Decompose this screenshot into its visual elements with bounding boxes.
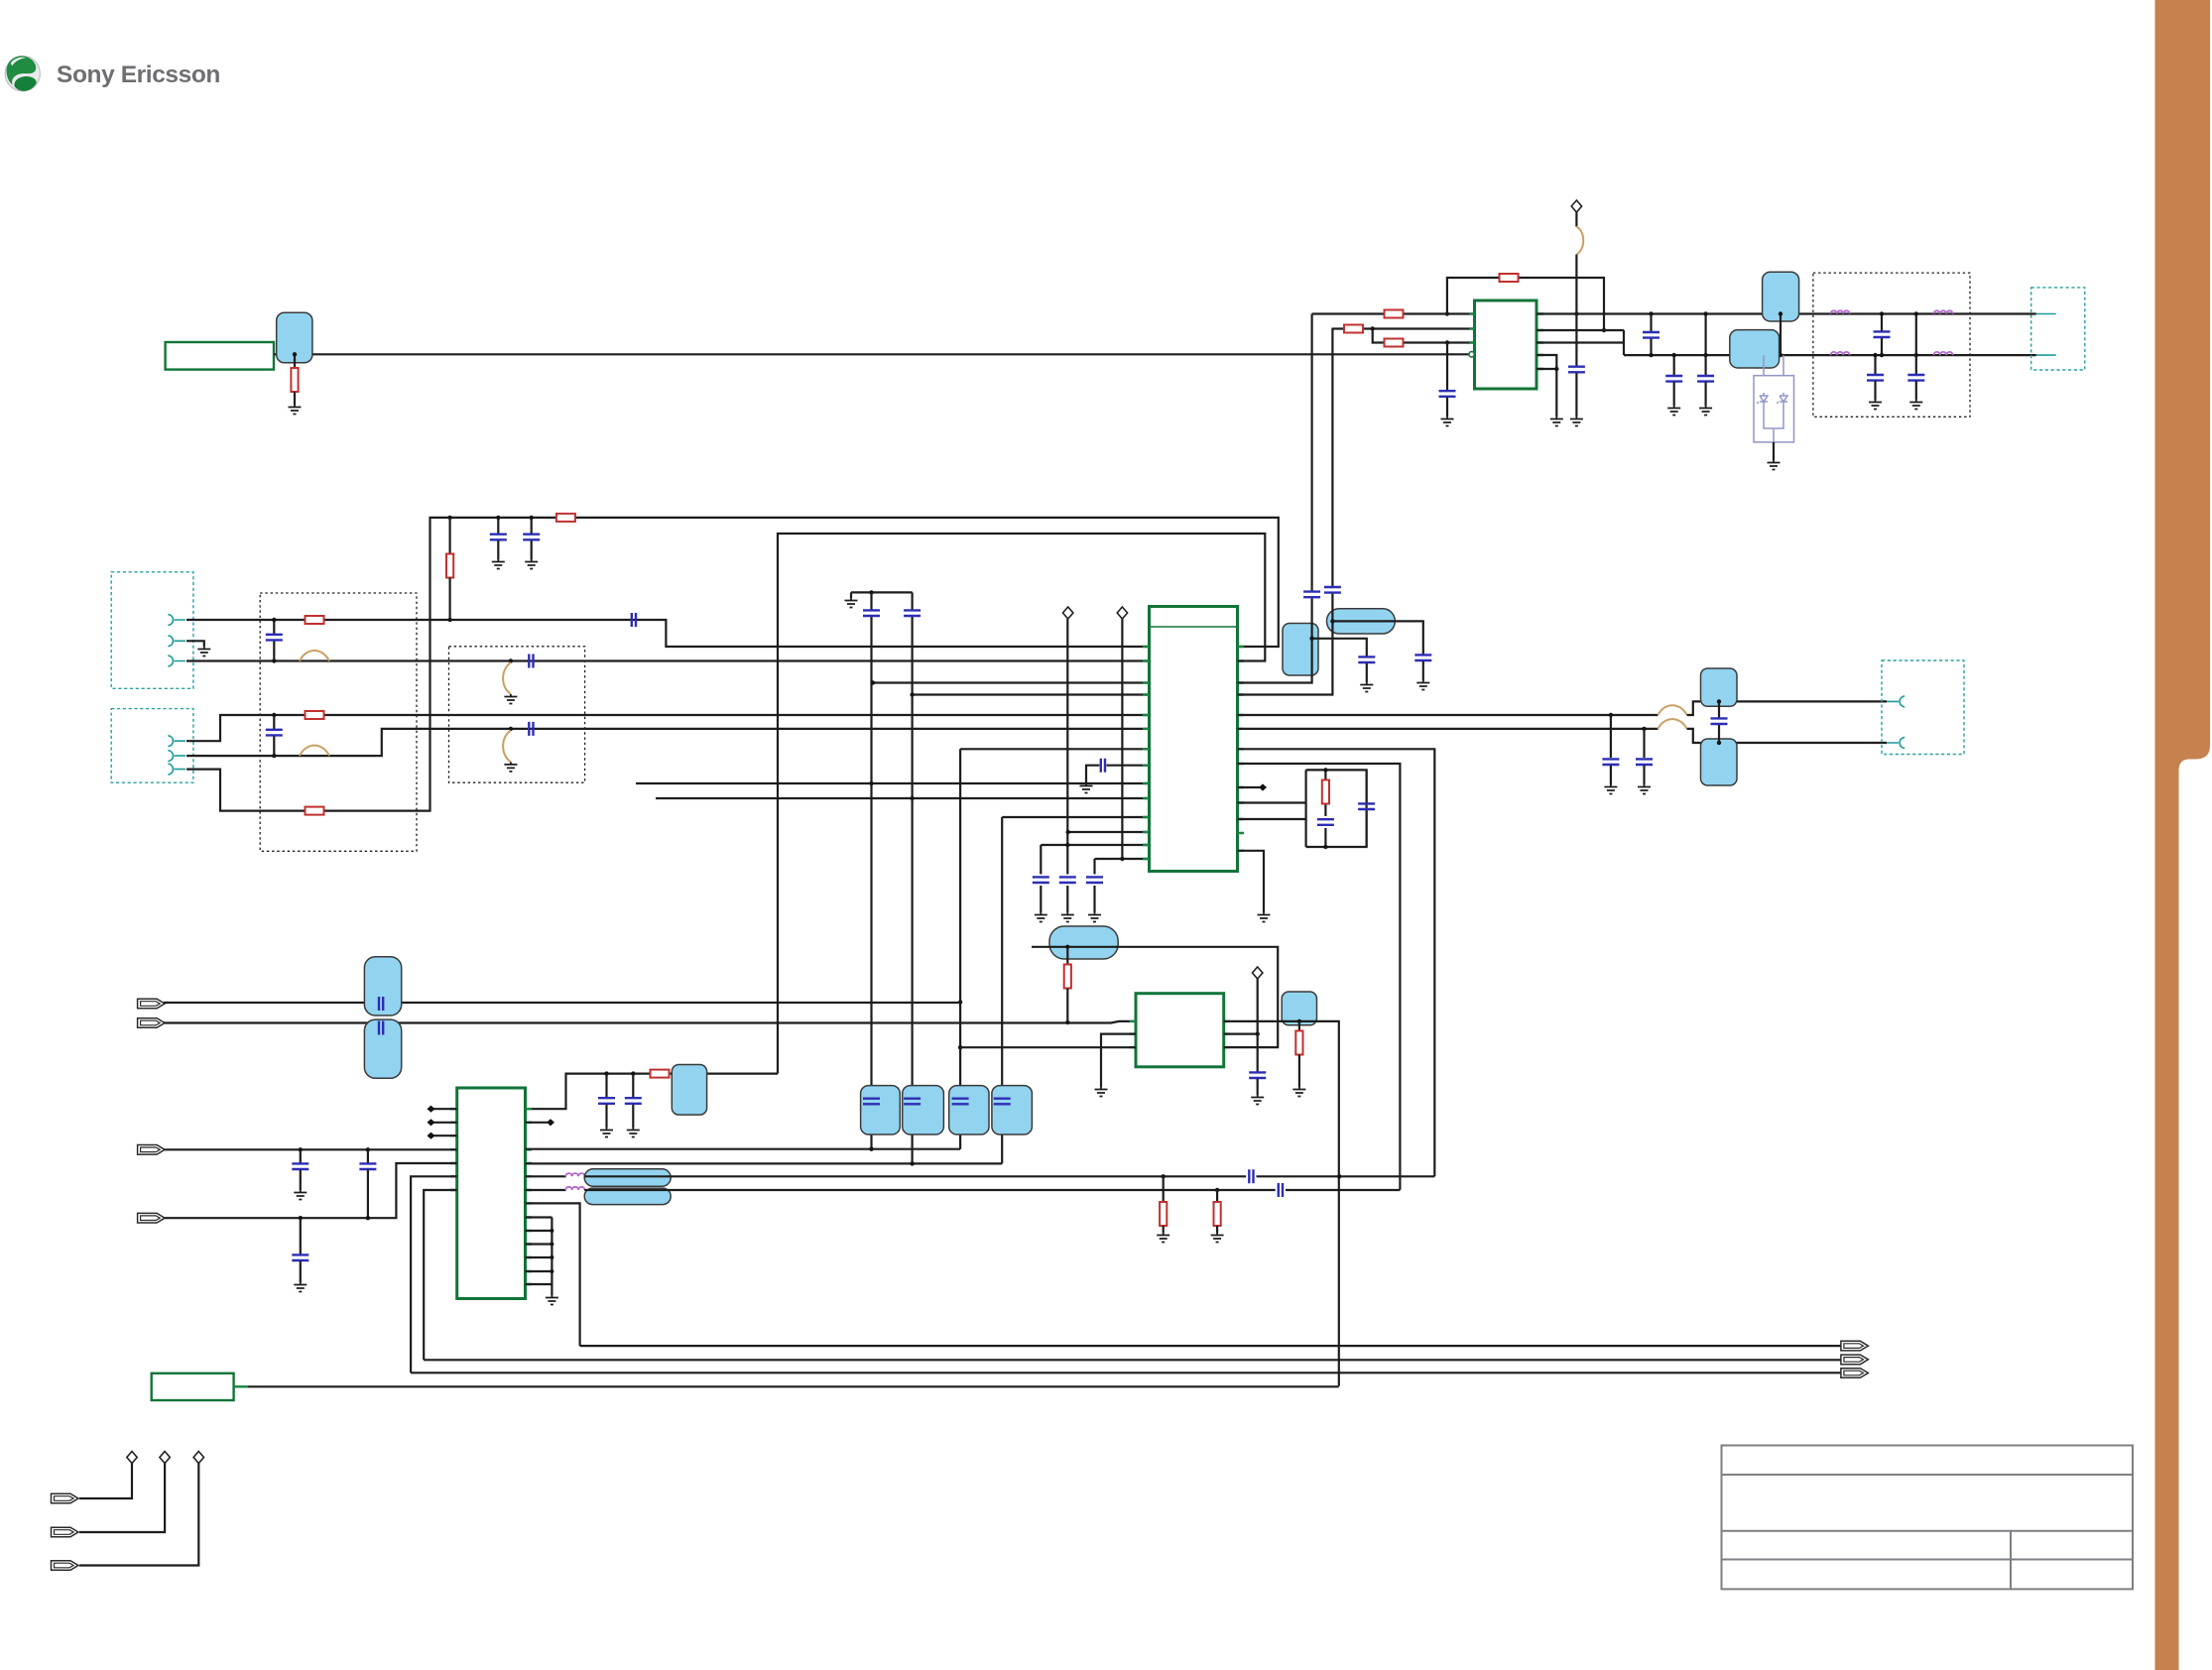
wire pin 794 stub — [1238, 786, 1261, 788]
pins 4/5 to ground — [1536, 355, 1556, 417]
J2 pin 2 — [168, 751, 185, 762]
branch to cap C7b — [1312, 639, 1367, 656]
terminator (black diamond) — [1259, 783, 1267, 790]
series cap C4a — [529, 655, 533, 668]
RF rail 2 — [1624, 354, 2036, 356]
J3 pin 1 — [1887, 696, 1905, 707]
wire pin 666 loopback — [778, 534, 1265, 1074]
node diamond N3 — [1253, 967, 1263, 979]
wire to R9 — [449, 518, 451, 557]
wire N4 — [79, 1464, 132, 1499]
block label box (green) — [166, 342, 274, 370]
pin stubs right U2 — [1536, 314, 1544, 370]
antenna pin 1 — [2036, 313, 2056, 315]
mic pill A (blue) — [364, 957, 401, 1015]
wire U5.R7 to bus1 — [526, 1203, 580, 1346]
U3 left pin stubs — [1143, 647, 1150, 859]
node VANT diamond — [1571, 200, 1581, 212]
cap C11 between lines — [1718, 701, 1720, 743]
RC loop frame — [1306, 770, 1367, 847]
input terminators (black diamonds) — [433, 1109, 457, 1135]
wire C4 to U5 — [165, 1163, 457, 1218]
wire U4.1R — [1224, 1021, 1339, 1386]
node diamond N6 — [193, 1452, 203, 1464]
U4 right pin stubs — [1224, 1021, 1230, 1047]
wire N1 down — [1066, 619, 1068, 875]
cap C2c to ground — [1915, 355, 1917, 374]
inverting pin bubble — [1469, 352, 1474, 357]
connector P5 pennant — [52, 1527, 79, 1537]
junction — [1371, 326, 1375, 330]
J2 pin 3 — [168, 764, 185, 775]
series cap C7a — [1303, 592, 1320, 598]
wire U5.L7 to bus2 — [424, 1190, 457, 1360]
wire U5 rail A — [526, 1148, 961, 1150]
title block table — [1722, 1446, 2134, 1590]
node diamond N1 — [1063, 607, 1073, 619]
ground — [289, 405, 302, 415]
cap C5a to ground — [497, 518, 499, 534]
wire step down — [1687, 729, 1887, 743]
antenna connector box (teal dashed) — [2031, 288, 2085, 370]
series cap C8a — [1324, 587, 1341, 593]
J2 pin 1 — [168, 736, 185, 747]
junction — [1445, 311, 1449, 315]
rail 1 wire — [186, 620, 1150, 647]
cap chain C16a — [1040, 845, 1042, 875]
tie vertical — [1704, 314, 1706, 356]
blue pad F — [672, 1065, 706, 1116]
wire R16 to C2 net — [1066, 989, 1068, 1023]
series cap C4c on rail1 — [632, 613, 636, 627]
EMI pad H (blue) — [1701, 739, 1738, 785]
U5 left pin stubs — [450, 1109, 457, 1190]
filter box 2 (dotted) — [449, 647, 585, 782]
wire to pin 755 — [960, 748, 1149, 750]
wire diamond down — [1575, 212, 1577, 227]
resistor R14 to ground — [1163, 1176, 1165, 1205]
inductor L4 — [1934, 352, 1953, 355]
resistor R4 — [1344, 325, 1363, 333]
wire rail 721 right — [1238, 714, 1659, 716]
wire pin 809 to RC loop — [1238, 801, 1306, 803]
wire J2.3 loop to top — [186, 518, 1279, 811]
wire to pin 839 — [1068, 831, 1150, 833]
mic pill B (blue) — [364, 1019, 401, 1078]
wire pin 755 down — [1238, 749, 1435, 1176]
ferrite arc (tan) — [1658, 705, 1686, 715]
bypass square 3 (blue) — [949, 1086, 989, 1134]
tie vertical at 1795 — [1780, 314, 1782, 356]
resistor R15 to ground — [1216, 1190, 1218, 1205]
resistor R7 — [306, 711, 324, 719]
ground — [1441, 417, 1454, 426]
cap C12 to ground — [1257, 1034, 1259, 1072]
connector P3 pennant — [1841, 1369, 1869, 1378]
junction — [1330, 619, 1334, 623]
wire rail 734 right — [1238, 728, 1659, 730]
mic pill C (blue) — [1049, 926, 1118, 959]
connector J1 box (teal dashed) — [111, 572, 193, 689]
resistor R13 — [651, 1070, 670, 1078]
cap C16b — [1059, 877, 1076, 883]
wire pin 857 to ground — [1238, 851, 1265, 912]
wire step up — [1687, 701, 1887, 715]
resistor R1 — [291, 368, 298, 392]
resistor R11 — [1322, 780, 1329, 804]
cap C13a — [605, 1074, 607, 1097]
cap C2a between rails — [1881, 314, 1883, 356]
resistor R3 — [1385, 310, 1404, 318]
wire to pin 688 — [873, 681, 1150, 683]
IC U5 body (green) — [457, 1088, 526, 1299]
RF rail 1 — [1536, 312, 2036, 314]
EMI pill 1 (blue) — [584, 1169, 671, 1186]
cap C10a to ground — [1610, 715, 1612, 758]
resistor R12 to ground — [1298, 1021, 1300, 1033]
orange side bar — [2155, 0, 2211, 1670]
wire rail — [851, 592, 913, 598]
wire to pin 852 — [1041, 844, 1149, 846]
wire R9 to rail1 — [449, 578, 451, 621]
inductor arc A1 (tan) — [300, 651, 329, 661]
arc to ground B2 (tan) — [503, 730, 511, 762]
junction — [447, 516, 451, 520]
antenna pin 2 — [2036, 354, 2056, 356]
pin stubs left U2 — [1469, 314, 1475, 343]
inductor L1 — [1831, 310, 1850, 313]
series cap C4b — [529, 722, 533, 736]
pill D (blue) — [1327, 609, 1396, 634]
junction — [1554, 367, 1558, 371]
wire W2 — [584, 1189, 1400, 1191]
inductor L2 — [1934, 310, 1953, 313]
wire U5.R1 chain — [526, 1074, 779, 1110]
wire U4.2L to ground — [1101, 1034, 1136, 1087]
matching network box (dotted) — [260, 593, 417, 851]
wire to pin 824 — [1002, 816, 1149, 818]
J3 pin 2 — [1887, 737, 1905, 748]
connector C3 pennant — [138, 1145, 166, 1155]
shunt cap C1c to ground — [1704, 355, 1706, 375]
capacitor C-pa1 — [1568, 367, 1585, 373]
test point TP1 (blue) — [277, 312, 312, 363]
cap C3b across — [273, 715, 275, 756]
cap C9a — [1317, 819, 1334, 825]
connector C2 pennant — [138, 1018, 166, 1028]
vertical VC2 to PA in2 — [1238, 328, 1333, 695]
wire W1 — [584, 1175, 1434, 1177]
wire C1 — [164, 1002, 960, 1004]
capacitor C-pa2 — [1439, 391, 1456, 397]
IC U4 body (green) — [1136, 994, 1224, 1067]
wire N3 down — [1257, 979, 1259, 1034]
ground ladder pins — [526, 1218, 553, 1296]
caps in squares — [863, 1099, 880, 1105]
ESD array D1 box — [1754, 376, 1794, 442]
terminator U5.R2 — [526, 1122, 549, 1124]
inductor arc (tan) — [1576, 227, 1583, 255]
cap C5b to ground — [531, 518, 533, 534]
inductor arc A2 (tan) — [300, 746, 329, 757]
junction — [1574, 311, 1578, 315]
cap chain C16c — [1093, 859, 1095, 875]
wire N6 — [79, 1464, 198, 1566]
EMI pill 2 (blue) — [584, 1188, 671, 1205]
wire to ground — [1575, 373, 1577, 417]
inductor L3 — [1831, 352, 1850, 355]
block label box 2 (green) — [152, 1373, 234, 1400]
connector P1 pennant — [1841, 1341, 1869, 1351]
cap C3a across — [273, 620, 275, 661]
ESD diode leads — [1764, 355, 1783, 376]
wire to ground — [1446, 398, 1448, 417]
wire to R16 — [1066, 947, 1068, 968]
wire mic line — [1032, 947, 1278, 1047]
wire U5.L6 to bus3 — [411, 1176, 457, 1372]
wire N2 down — [1121, 619, 1123, 859]
series cap in pill B — [379, 1021, 383, 1035]
pin2/3 staircase — [1536, 330, 1624, 355]
arc to ground B1 (tan) — [503, 662, 511, 694]
junction — [1445, 340, 1449, 344]
vertical B with cap C6b — [911, 592, 913, 1163]
rail 2 wire — [186, 659, 1150, 661]
resistor R10 series — [556, 514, 575, 522]
wire VBATT long — [274, 353, 1475, 355]
vertical A with cap C6a — [870, 592, 872, 1148]
PA IC U2 (green) — [1475, 300, 1537, 389]
wire U5 rail B — [526, 1162, 1003, 1164]
zener D1b — [1777, 393, 1787, 409]
ground — [1570, 417, 1583, 426]
cap C14c — [300, 1218, 302, 1253]
wire to pin 790 — [636, 782, 1150, 784]
node diamond N5 — [160, 1452, 170, 1464]
cap C13b — [632, 1074, 634, 1097]
ground — [1550, 417, 1563, 426]
junction — [509, 727, 513, 731]
resistor R9 — [446, 554, 453, 578]
series cap C15b — [1279, 1183, 1283, 1197]
resistor R2 — [1500, 274, 1519, 282]
wire R1 to ground — [294, 392, 296, 405]
zener D1a — [1757, 393, 1768, 409]
wire to pin 866 — [1095, 858, 1150, 860]
test pad TP2 (blue) — [1763, 272, 1799, 321]
ferrite arc (tan) — [1658, 719, 1686, 729]
connector C4 pennant — [138, 1213, 166, 1223]
vertical VC1 to PA in1 — [1238, 314, 1312, 683]
wire to R1 — [294, 354, 296, 368]
series cap in pill A — [379, 997, 383, 1011]
wire U4.2R junction — [1224, 1032, 1258, 1034]
cap C14b — [367, 1149, 369, 1162]
J1 pin 1 — [168, 614, 185, 625]
series cap C15a — [1249, 1169, 1253, 1183]
vertical sq3 — [959, 749, 961, 1148]
bus 3 — [411, 1372, 1841, 1373]
U5 right pin stubs — [526, 1109, 533, 1284]
stub — [234, 1385, 248, 1387]
wire C2 to U4 — [164, 1021, 1136, 1023]
IC U3 body (green) — [1150, 607, 1238, 872]
branch to cap C8b — [1332, 621, 1422, 654]
ESD common lead — [1764, 409, 1783, 442]
cap C9b on right leg — [1365, 770, 1367, 847]
bus 1 — [580, 1345, 1841, 1347]
connector C1 pennant — [138, 999, 166, 1009]
blue square C (regulator pad) — [1283, 624, 1318, 676]
tie vertical 1931.8 — [1915, 314, 1917, 356]
test pad TP3 (blue) — [1730, 330, 1780, 368]
U4 left pin stubs — [1130, 1021, 1137, 1047]
wire branch to in3 — [1373, 329, 1475, 343]
bus 2 — [424, 1359, 1841, 1361]
resistor R16 — [1064, 965, 1071, 989]
Sony Ericsson logo ball — [5, 56, 42, 92]
wire C3 to U5 — [165, 1148, 457, 1150]
junction — [1602, 328, 1606, 332]
cap C10b to ground — [1643, 729, 1645, 758]
junction — [509, 658, 513, 662]
wire J2.1 rail 3 — [186, 715, 1150, 741]
wire to rail — [1575, 255, 1577, 314]
headset connector J3 (teal dashed) — [1882, 660, 1964, 755]
EMI filter box (dashed) — [1813, 273, 1970, 417]
shunt cap C1b to ground — [1673, 355, 1675, 375]
ground — [546, 1295, 558, 1305]
cap C2b to ground — [1874, 355, 1876, 374]
wire N5 — [79, 1464, 165, 1533]
cap C14a — [300, 1149, 302, 1162]
resistor R6 — [306, 616, 324, 624]
node diamond N4 — [127, 1452, 137, 1464]
coil L6 — [526, 1189, 566, 1191]
U3 right pin stubs — [1238, 647, 1245, 851]
ground — [1768, 460, 1781, 470]
wire to C-pa1 — [1575, 314, 1577, 367]
wire pin 770 down — [1238, 764, 1401, 1190]
connector P6 pennant — [52, 1561, 79, 1571]
EMI pad G (blue) — [1701, 668, 1738, 706]
bypass square 1 (blue) — [861, 1086, 901, 1134]
J1 pin 2 — [168, 636, 185, 647]
wire PA in1 — [1312, 312, 1475, 314]
wire PA in2 — [1332, 327, 1474, 329]
bypass square 4 (blue) — [992, 1086, 1033, 1134]
svg-text:Sony Ericsson: Sony Ericsson — [57, 61, 220, 88]
wire J2.2 rail 4 — [186, 729, 1150, 756]
resistor R8 — [306, 807, 324, 815]
vertical sq4 — [1001, 817, 1003, 1163]
connector J2 box (teal dashed) — [111, 709, 193, 783]
wire to C-pa2 — [1446, 343, 1448, 391]
junction — [293, 352, 297, 356]
J1 pin 3 — [168, 656, 185, 666]
wire to pin 700 — [913, 693, 1150, 695]
connector P4 pennant — [52, 1493, 79, 1503]
node diamond N2 — [1117, 607, 1127, 619]
wire U4.3L — [960, 1046, 1136, 1048]
coupling cap C1a between rails — [1650, 314, 1652, 356]
bypass square 2 (blue) — [903, 1086, 944, 1134]
pin 770 series cap to ground — [1086, 766, 1099, 783]
wire to pin 805 — [656, 797, 1150, 799]
wire pin 826 to RC loop — [1238, 818, 1306, 820]
resistor R5 — [1385, 339, 1404, 347]
feedback resistor R2 wiring — [1447, 278, 1604, 330]
junction — [1309, 637, 1313, 641]
blue pad E — [1282, 992, 1316, 1025]
connector P2 pennant — [1841, 1355, 1869, 1365]
wire J1.2 to ground — [186, 641, 204, 647]
coil L5 — [526, 1175, 566, 1177]
bus 4 — [248, 1385, 1339, 1387]
